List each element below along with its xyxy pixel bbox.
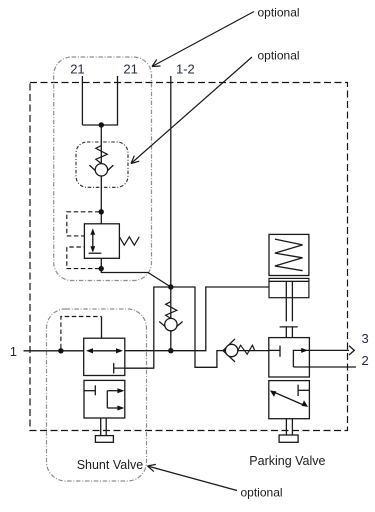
parking valve rod coupling T (280, 326, 298, 328)
check valve C2 spring (238, 345, 255, 354)
wire node A down to C1 (170, 287, 172, 318)
pressure regulator pilot line (bottom, dashed) (67, 247, 100, 269)
shunt valve exhaust elbow with arrows (106, 391, 108, 408)
svg-text:Parking Valve: Parking Valve (249, 454, 325, 468)
svg-text:optional: optional (258, 5, 300, 19)
check valve C1 spring (166, 302, 177, 319)
check valve C2 seat (223, 339, 235, 362)
wire rail left from node A down to shunt port (125, 287, 171, 368)
shunt valve pilot stub (solid) (101, 317, 103, 339)
shunt valve lower box blocked port T (84, 390, 95, 392)
parking valve top position box (269, 338, 310, 377)
parking valve piston rod (double line) (286, 281, 292, 321)
check valve C1 ball (165, 318, 177, 330)
pressure regulator spring (right) (119, 237, 139, 245)
wire C1 bottom to node B (170, 331, 172, 350)
svg-text:optional: optional (258, 49, 300, 63)
check valve C1 seat (159, 322, 182, 332)
svg-text:1: 1 (10, 344, 17, 359)
shunt valve pilot line (dashed) (61, 317, 102, 349)
svg-text:Shunt Valve: Shunt Valve (77, 458, 144, 472)
parking valve exhaust foot (279, 435, 298, 442)
wire C3 to pressure regulator (100, 176, 102, 224)
wire regulator output down and right (101, 258, 171, 287)
node junction port 1 / pilot (58, 348, 63, 353)
wire node B rail right, up to parking valve supply (125, 287, 269, 351)
check valve C3 spring (96, 146, 108, 164)
pressure regulator seat line (89, 252, 102, 254)
check valve C3 seat (89, 165, 113, 176)
optional section dash-dot rounded box (top, gray) (54, 57, 152, 281)
parking valve lower box blocked port T (298, 389, 309, 391)
port 3 open arrowhead (349, 346, 354, 355)
shunt valve exhaust stem (101, 418, 107, 436)
parking valve lower box diagonal double arrow (275, 392, 304, 405)
parking valve piston plate (269, 278, 309, 281)
check valve C3 ball (95, 164, 107, 176)
parking valve spring chamber (269, 234, 309, 275)
pressure regulator flow arrow (double headed vertical) (92, 233, 94, 248)
node B junction (168, 348, 173, 353)
wire port 1-2 vertical line (170, 76, 172, 287)
wire port 1 line (24, 350, 85, 352)
node A junction (1-2 / regulator / rails) (168, 284, 173, 289)
wire C2 through-line to parking valve (223, 350, 269, 352)
parking valve cylinder (269, 281, 309, 297)
parking valve exhaust stem (286, 419, 292, 435)
svg-text:optional: optional (241, 486, 283, 500)
wire rail right from node A with step down to check valve C2 (171, 287, 223, 367)
outer dashed assembly border (30, 83, 348, 431)
wire port 21 left vertical (81, 76, 83, 125)
parking valve elbow 2 to 3 with arrow (293, 350, 349, 367)
wire 21 manifold horizontal (82, 124, 118, 126)
svg-text:21: 21 (123, 62, 137, 77)
optional arrow bottom (148, 466, 238, 491)
node junction regulator bottom pilot (99, 266, 104, 271)
node junction regulator top pilot (99, 209, 104, 214)
wire manifold down to check valve C3 (100, 125, 102, 164)
node junction 21 manifold (99, 122, 104, 127)
parking valve bottom position box (269, 381, 310, 419)
svg-text:2: 2 (362, 353, 369, 368)
check valve C2 ball (225, 344, 237, 356)
svg-text:21: 21 (70, 62, 84, 77)
shunt valve top position box (84, 338, 125, 375)
shunt valve blocked port T (113, 363, 115, 373)
pressure regulator pilot line (top, dashed) (67, 212, 100, 236)
svg-text:3: 3 (362, 331, 369, 346)
check valve C3 dash-dot box (76, 142, 128, 187)
optional arrow middle (131, 57, 252, 164)
shunt valve exhaust foot (95, 436, 113, 443)
shunt valve dash-dot rounded box (gray) (47, 309, 147, 481)
wire port 2 line (293, 366, 356, 368)
wire port 21 right vertical (117, 76, 119, 125)
pressure regulator body (84, 224, 119, 258)
parking valve blocked inlet T (269, 349, 280, 351)
svg-text:1-2: 1-2 (176, 62, 195, 77)
shunt valve through-flow double arrow (90, 350, 119, 352)
shunt valve bottom position box (84, 380, 125, 418)
optional arrow top (152, 12, 254, 67)
parking valve spring (275, 239, 303, 271)
